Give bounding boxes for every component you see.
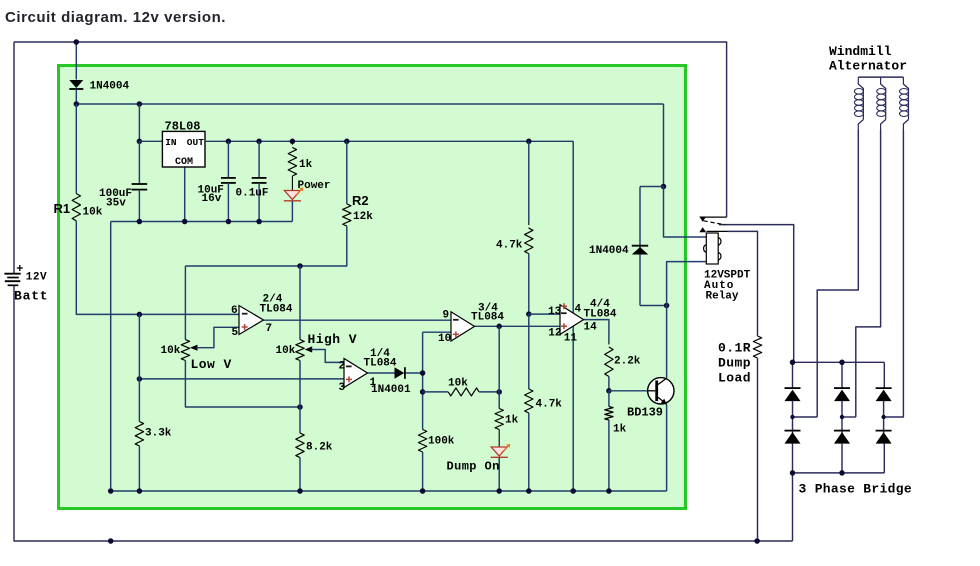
svg-text:10k: 10k — [448, 378, 468, 390]
svg-text:R1: R1 — [54, 201, 71, 216]
svg-text:2: 2 — [339, 360, 346, 372]
svg-text:COM: COM — [175, 157, 193, 168]
svg-text:10: 10 — [438, 333, 451, 345]
svg-text:R2: R2 — [352, 193, 369, 208]
svg-text:TL084: TL084 — [471, 312, 504, 324]
svg-text:TL084: TL084 — [260, 304, 293, 316]
svg-text:4.7k: 4.7k — [536, 399, 563, 411]
svg-text:1N4004: 1N4004 — [90, 81, 130, 93]
svg-text:Circuit diagram. 12v version.: Circuit diagram. 12v version. — [5, 9, 226, 26]
svg-text:2.2k: 2.2k — [614, 356, 641, 368]
svg-text:5: 5 — [232, 327, 239, 339]
svg-text:Dump On: Dump On — [447, 460, 500, 474]
svg-text:Windmill: Windmill — [829, 44, 892, 59]
svg-text:0.1R: 0.1R — [718, 341, 751, 356]
svg-text:1N4004: 1N4004 — [589, 245, 629, 257]
svg-text:13: 13 — [548, 306, 562, 318]
svg-text:TL084: TL084 — [584, 309, 617, 321]
svg-text:TL084: TL084 — [364, 358, 397, 370]
svg-text:7: 7 — [266, 323, 273, 335]
svg-text:Relay: Relay — [706, 291, 739, 303]
svg-text:Low V: Low V — [191, 357, 232, 372]
svg-text:Alternator: Alternator — [829, 59, 907, 74]
svg-text:35v: 35v — [106, 198, 126, 210]
svg-text:6: 6 — [231, 305, 238, 317]
svg-text:9: 9 — [443, 310, 450, 322]
svg-text:10k: 10k — [161, 345, 181, 357]
svg-text:3 Phase Bridge: 3 Phase Bridge — [799, 481, 912, 496]
svg-text:12V: 12V — [26, 272, 47, 284]
svg-text:IN: IN — [165, 137, 177, 148]
svg-text:10k: 10k — [83, 207, 103, 219]
svg-text:Load: Load — [718, 371, 751, 386]
svg-text:16v: 16v — [202, 193, 222, 205]
svg-text:3.3k: 3.3k — [145, 428, 172, 440]
svg-text:8.2k: 8.2k — [306, 442, 333, 454]
svg-text:14: 14 — [584, 322, 598, 334]
svg-text:High V: High V — [308, 332, 358, 347]
svg-text:4: 4 — [575, 304, 582, 316]
svg-text:1N4001: 1N4001 — [371, 384, 411, 396]
svg-text:Batt: Batt — [14, 289, 48, 304]
svg-text:11: 11 — [564, 333, 578, 345]
svg-text:BD139: BD139 — [627, 406, 663, 420]
svg-text:OUT: OUT — [187, 137, 204, 148]
svg-text:1: 1 — [370, 377, 377, 389]
svg-text:Power: Power — [298, 180, 331, 192]
svg-text:100k: 100k — [428, 436, 455, 448]
svg-text:12: 12 — [548, 328, 561, 340]
svg-text:78L08: 78L08 — [165, 120, 201, 134]
svg-text:4.7k: 4.7k — [496, 240, 523, 252]
svg-text:0.1uF: 0.1uF — [236, 188, 269, 200]
svg-text:1k: 1k — [505, 415, 519, 427]
svg-text:1k: 1k — [299, 159, 313, 171]
svg-text:12k: 12k — [353, 211, 373, 223]
svg-text:3: 3 — [339, 382, 346, 394]
svg-text:10k: 10k — [276, 345, 296, 357]
svg-text:1k: 1k — [613, 424, 627, 436]
svg-text:Dump: Dump — [718, 356, 751, 371]
